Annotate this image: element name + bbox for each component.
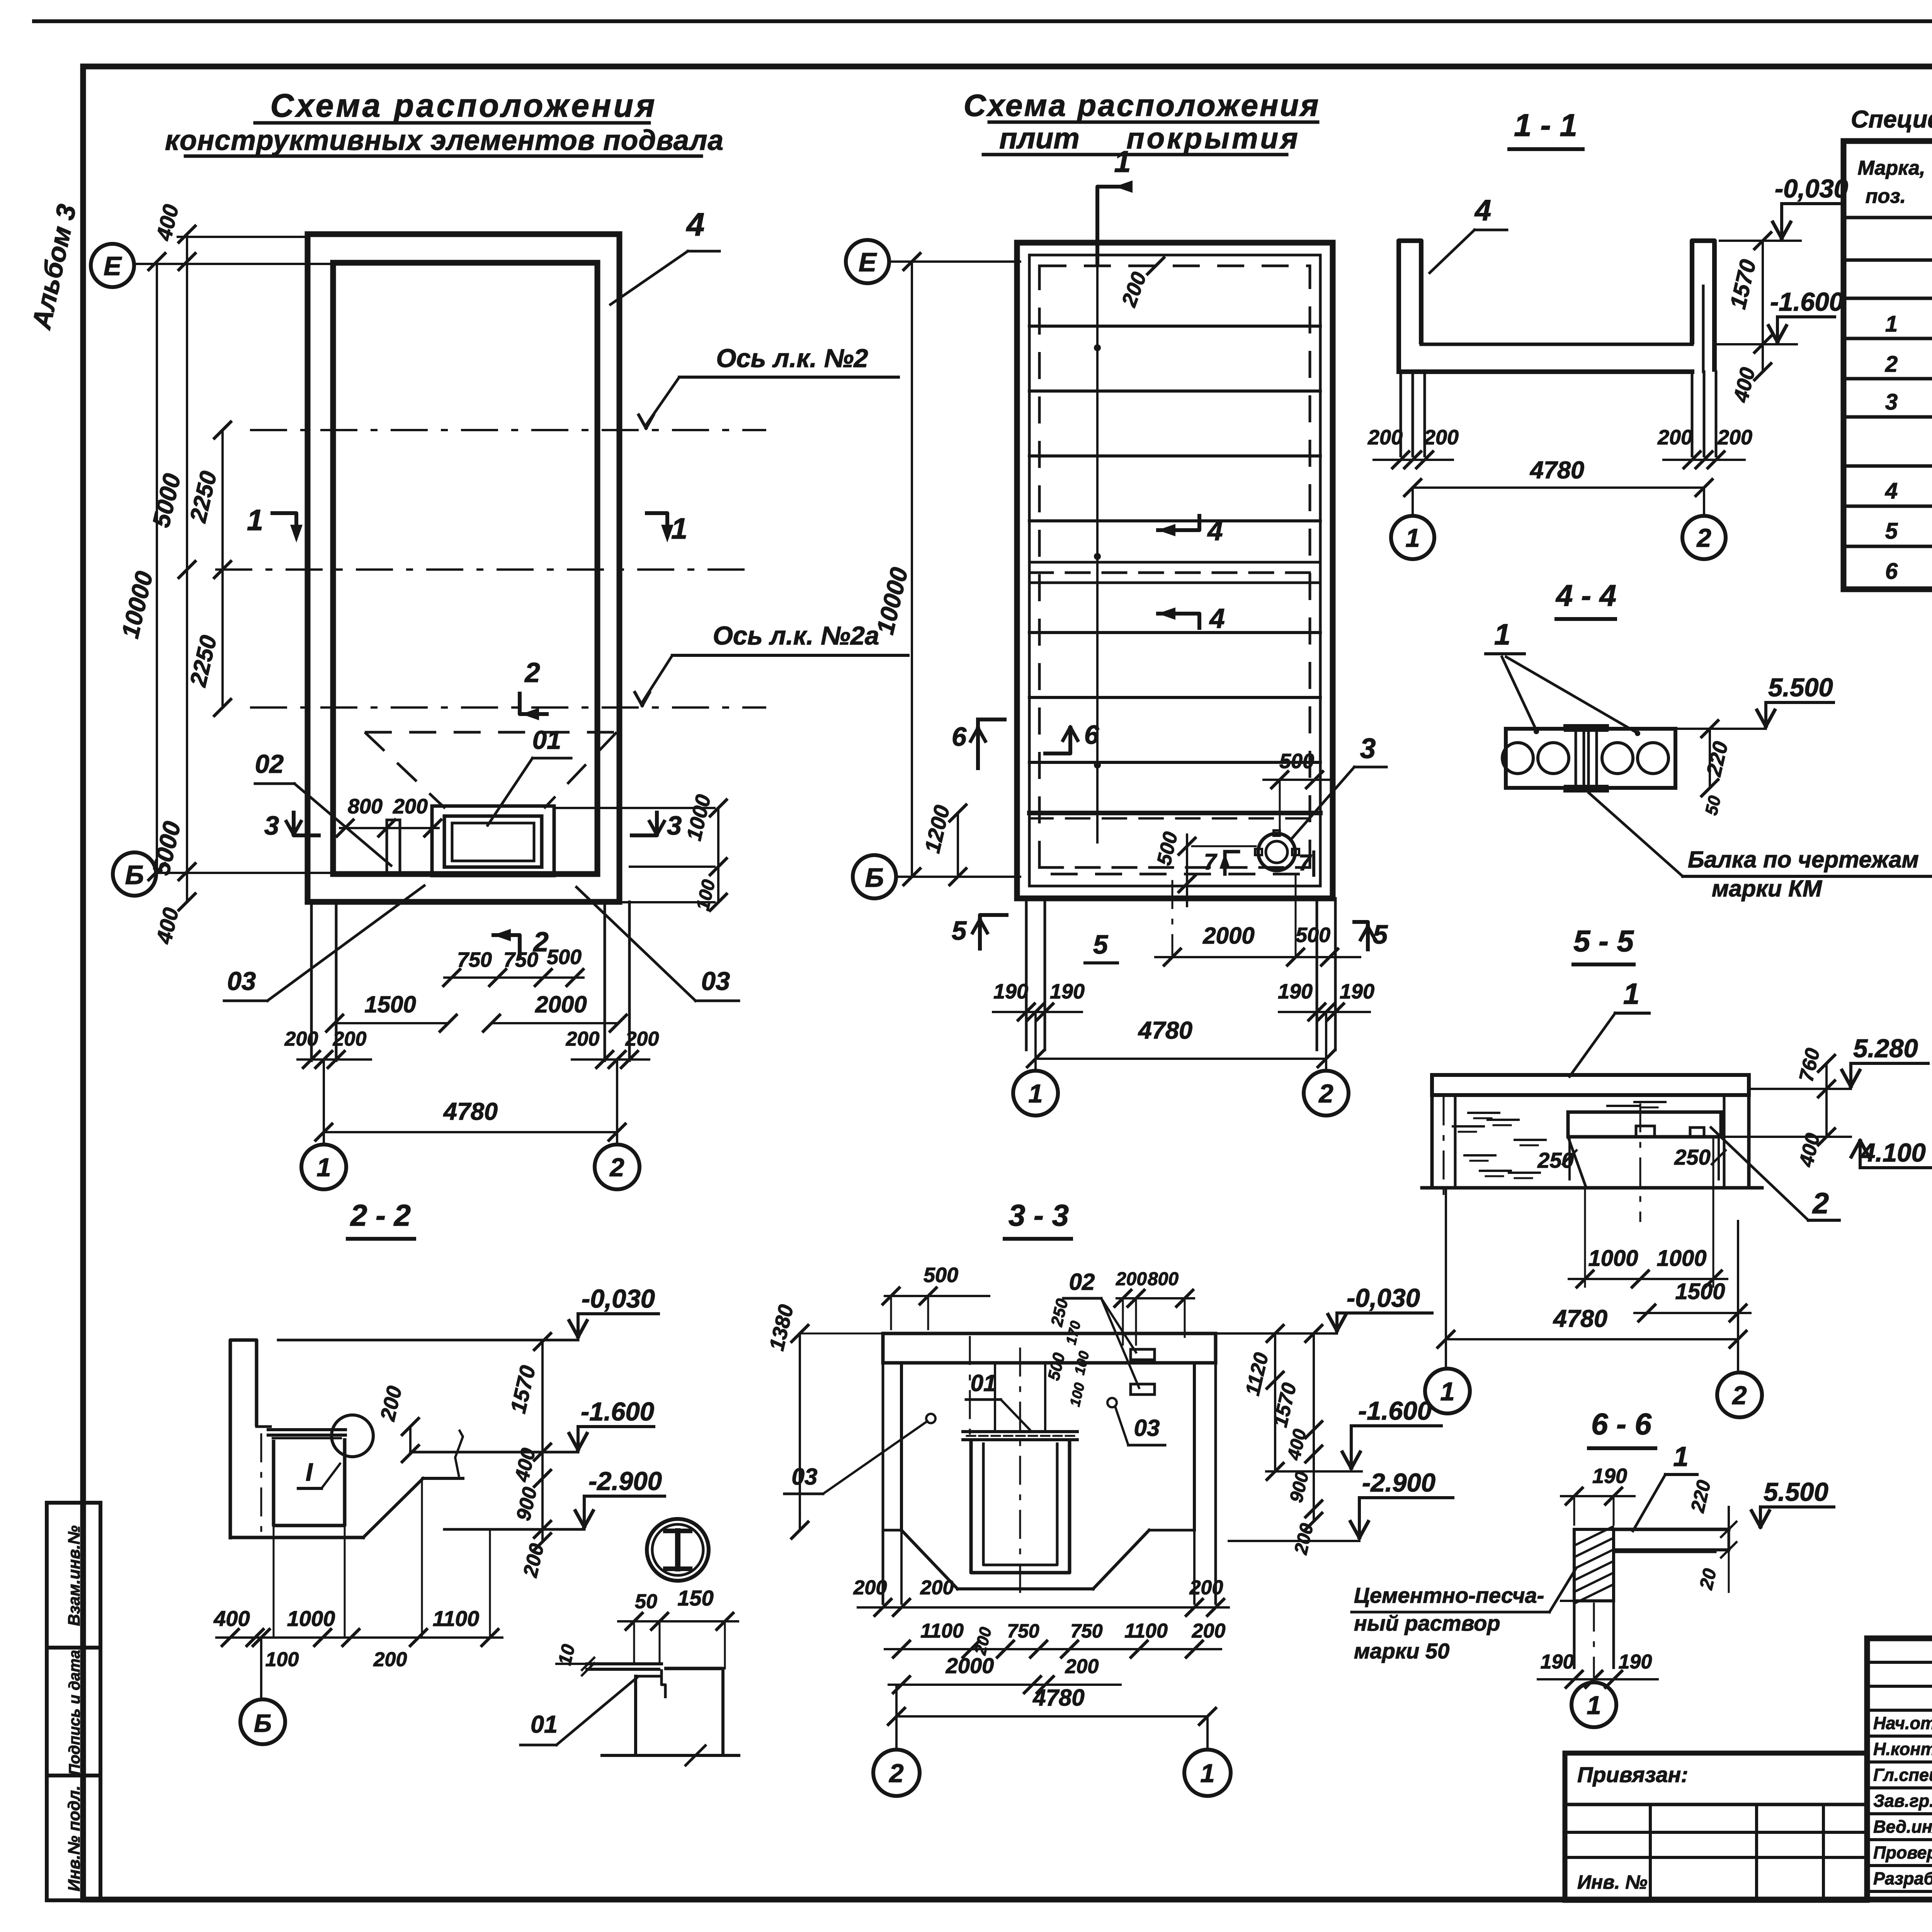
embedded MC parts (5-5)	[1636, 1126, 1655, 1137]
column axis 1 circle (roof plan)	[1034, 1012, 1037, 1070]
axis circle 2 (5-5)	[1737, 1221, 1739, 1372]
svg-text:Разраб.: Разраб.	[1873, 1869, 1932, 1888]
svg-text:1000: 1000	[1588, 1246, 1638, 1271]
svg-text:Провер: Провер	[1873, 1843, 1932, 1862]
bearing plate 01 (3-3)	[963, 1430, 1077, 1433]
svg-text:200: 200	[1189, 1577, 1223, 1599]
dims 200 200 left (1-1)	[1374, 459, 1453, 461]
svg-text:2 - 2: 2 - 2	[350, 1198, 411, 1232]
svg-text:4780: 4780	[1032, 1685, 1084, 1711]
svg-text:200: 200	[1367, 426, 1403, 449]
roof plan walls below (elevation)	[1025, 898, 1028, 1050]
svg-text:200: 200	[853, 1577, 887, 1599]
svg-text:2: 2	[524, 658, 540, 688]
svg-text:Взам.инв.№: Взам.инв.№	[65, 1526, 83, 1626]
svg-text:200: 200	[333, 1028, 367, 1050]
axis E circle (roof plan)	[846, 240, 889, 283]
outer sheet border top	[34, 19, 1932, 23]
dim 4780 (1-1)	[1413, 486, 1704, 489]
column axis 1 circle (left plan)	[323, 1060, 325, 1143]
dim 190 190 labels	[993, 1011, 1082, 1013]
hollow-core slab section (4-4)	[1506, 729, 1675, 788]
svg-text:200: 200	[1657, 426, 1692, 449]
right dim chains (3-3)	[1274, 1333, 1276, 1471]
column axis 2 circle (roof plan)	[1325, 1012, 1327, 1070]
dim 500 above funnel	[1264, 779, 1329, 781]
concrete texture dashes (5-5)	[1468, 1112, 1499, 1114]
bottom dim rows (3-3)	[858, 1606, 1229, 1609]
svg-text:-1.600: -1.600	[581, 1397, 654, 1426]
svg-text:190: 190	[1541, 1651, 1574, 1673]
svg-text:200: 200	[373, 1648, 407, 1671]
vertical dim 2250/2250	[221, 430, 224, 707]
svg-text:1500: 1500	[364, 992, 416, 1017]
axis line Б vertical (2-2)	[260, 1434, 262, 1542]
detail I: plate	[587, 1662, 662, 1665]
elevation -0.030 (3-3)	[1216, 1332, 1337, 1335]
svg-text:1: 1	[1028, 1079, 1043, 1108]
dim 400 (1-1)	[1762, 344, 1764, 372]
svg-text:6 - 6: 6 - 6	[1591, 1407, 1652, 1441]
centerline left wall (3-3)	[969, 1337, 971, 1437]
svg-text:190: 190	[1340, 980, 1374, 1003]
svg-text:4780: 4780	[1529, 457, 1584, 484]
svg-text:5: 5	[1885, 519, 1898, 544]
dim 2000/500 under plan	[1155, 956, 1360, 958]
svg-text:5.500: 5.500	[1764, 1478, 1828, 1507]
svg-text:1: 1	[1673, 1442, 1689, 1472]
svg-text:190: 190	[1050, 980, 1085, 1003]
wall outline (2-2)	[230, 1340, 257, 1539]
svg-text:4780: 4780	[1553, 1305, 1607, 1332]
svg-text:7: 7	[1299, 850, 1312, 875]
svg-text:200: 200	[1717, 426, 1752, 449]
svg-text:Цементно-песча-: Цементно-песча-	[1354, 1583, 1544, 1607]
dim 220 (4-4)	[1709, 729, 1711, 788]
svg-text:Гл.спец.: Гл.спец.	[1873, 1765, 1932, 1785]
section 1-1 cut line (vertical)	[1096, 187, 1099, 842]
svg-text:марки 50: марки 50	[1354, 1639, 1449, 1663]
svg-text:-1.600: -1.600	[1770, 287, 1844, 316]
slab (6-6)	[1614, 1528, 1729, 1531]
svg-text:Ось л.к. №2а: Ось л.к. №2а	[713, 621, 879, 650]
svg-text:7: 7	[1204, 849, 1218, 874]
svg-text:6: 6	[1885, 559, 1898, 584]
svg-text:Привязан:: Привязан:	[1577, 1762, 1688, 1787]
svg-text:1000: 1000	[287, 1606, 335, 1631]
svg-text:3: 3	[1360, 733, 1376, 764]
svg-text:4 - 4: 4 - 4	[1555, 578, 1616, 612]
svg-text:Б: Б	[125, 860, 144, 890]
svg-text:-2.900: -2.900	[588, 1467, 662, 1496]
dim 500 top (3-3)	[885, 1295, 989, 1297]
svg-text:500: 500	[1296, 923, 1330, 947]
svg-text:2: 2	[1696, 524, 1711, 553]
axis E line	[134, 263, 359, 265]
svg-text:Н.контр.: Н.контр.	[1873, 1739, 1932, 1759]
vertical dim 10000 (left)	[156, 262, 158, 872]
cup walls (3-3)	[971, 1440, 1070, 1573]
svg-text:конструктивных элементов под: конструктивных элементов подвала	[165, 125, 724, 156]
svg-text:750: 750	[1007, 1620, 1039, 1642]
specification table grid	[1844, 141, 1932, 589]
detail circle I (2-2)	[332, 1415, 373, 1457]
roof plan dashed wall face	[1039, 266, 1310, 874]
svg-text:200: 200	[920, 1577, 954, 1599]
dim 800/200 near pit	[340, 827, 439, 829]
svg-text:Нач.отв.: Нач.отв.	[1873, 1713, 1932, 1733]
privyazan box	[1565, 1753, 1867, 1900]
svg-text:4.100: 4.100	[1860, 1138, 1926, 1167]
right dim chain (2-2)	[541, 1342, 544, 1542]
svg-text:марки КМ: марки КМ	[1712, 876, 1823, 901]
svg-text:4: 4	[686, 206, 705, 243]
slab joint edges (4-4)	[1575, 729, 1577, 788]
dim 1500 (5-5)	[1634, 1312, 1750, 1314]
svg-text:Инв. №: Инв. №	[1577, 1871, 1647, 1893]
svg-text:-0,030: -0,030	[1775, 174, 1848, 203]
svg-text:190: 190	[1278, 980, 1313, 1003]
svg-text:200: 200	[393, 795, 428, 818]
svg-text:1: 1	[1587, 1691, 1601, 1720]
axis circle 1 (1-1)	[1412, 488, 1414, 515]
svg-text:4780: 4780	[443, 1098, 498, 1125]
svg-text:Марка,: Марка,	[1858, 157, 1925, 179]
svg-text:2: 2	[1885, 352, 1898, 377]
svg-text:Подпись и дата: Подпись и дата	[66, 1650, 83, 1775]
svg-text:01: 01	[531, 1711, 558, 1738]
section 1-1 right wall	[1692, 241, 1714, 372]
svg-text:03: 03	[1134, 1415, 1160, 1441]
svg-text:1: 1	[1623, 978, 1639, 1010]
axis circle 1 (5-5)	[1445, 1188, 1447, 1368]
axis Б circle (roof plan)	[853, 855, 896, 898]
svg-text:190: 190	[1592, 1464, 1627, 1488]
section mark 4 (upper)	[1156, 514, 1199, 530]
svg-text:100: 100	[265, 1648, 299, 1671]
svg-text:1 - 1: 1 - 1	[1514, 108, 1577, 143]
svg-text:50: 50	[635, 1590, 657, 1613]
dims 1000 1000 (5-5)	[1584, 1188, 1586, 1287]
svg-text:5 - 5: 5 - 5	[1573, 924, 1634, 958]
centerline pit (5-5)	[1639, 1104, 1641, 1221]
svg-text:200: 200	[284, 1028, 318, 1050]
bearing plate 01 (2-2)	[268, 1428, 345, 1431]
svg-text:4: 4	[1209, 604, 1225, 634]
lintel Пр1 (5-5)	[1568, 1112, 1721, 1137]
svg-text:поз.: поз.	[1866, 185, 1906, 207]
dim 4780 (roof plan)	[1036, 1058, 1326, 1060]
svg-text:4: 4	[1474, 194, 1491, 227]
svg-text:750: 750	[503, 948, 538, 971]
bottom dashed line	[1039, 866, 1310, 869]
svg-text:Вед.инж.: Вед.инж.	[1873, 1817, 1932, 1837]
svg-text:750: 750	[457, 948, 492, 971]
svg-text:-2.900: -2.900	[1362, 1468, 1435, 1497]
section mark 4 (lower)	[1156, 614, 1199, 630]
svg-text:2000: 2000	[1202, 923, 1254, 949]
dims 200 200 right (1-1)	[1663, 459, 1745, 461]
dim 220/20 right (6-6)	[1728, 1507, 1730, 1529]
svg-text:1: 1	[671, 512, 687, 545]
centerline left wall (5-5)	[1443, 1097, 1445, 1206]
svg-text:400: 400	[213, 1606, 250, 1631]
opening edges above cup (3-3)	[994, 1363, 996, 1432]
svg-text:5: 5	[952, 916, 967, 946]
margin box Подпись и дата	[47, 1648, 100, 1776]
svg-text:Е: Е	[104, 251, 122, 281]
embedded part 02 (plan)	[387, 820, 400, 875]
svg-text:5: 5	[1373, 920, 1388, 949]
svg-text:-1.600: -1.600	[1358, 1396, 1432, 1425]
svg-text:3 - 3: 3 - 3	[1009, 1198, 1069, 1232]
dim 4780 (left plan)	[324, 1131, 617, 1133]
basement plan outer wall	[308, 234, 619, 902]
svg-text:6: 6	[1084, 720, 1099, 750]
svg-text:500: 500	[923, 1264, 958, 1287]
svg-text:01: 01	[532, 726, 561, 755]
axis E circle (left plan)	[91, 244, 134, 287]
svg-text:Б: Б	[254, 1709, 272, 1737]
slab plate (5-5)	[1432, 1075, 1749, 1095]
dim 4780 (5-5)	[1446, 1338, 1738, 1340]
leader 03 left (3-3)	[926, 1414, 935, 1423]
level line -0.030 (2-2)	[278, 1339, 578, 1342]
svg-text:500: 500	[1279, 750, 1314, 773]
margin box Инв.№ подл.	[47, 1776, 100, 1900]
svg-text:6: 6	[952, 722, 967, 752]
svg-text:4780: 4780	[1138, 1017, 1192, 1044]
walls below slab (3-3)	[900, 1363, 903, 1530]
level line -1.600 (2-2)	[410, 1451, 578, 1454]
dim 1570 (1-1)	[1762, 241, 1764, 344]
centerline pit (3-3)	[1019, 1349, 1021, 1600]
svg-text:03: 03	[792, 1464, 818, 1490]
dim 1380 left (3-3)	[799, 1333, 801, 1530]
axis circle 1 (6-6)	[1593, 1604, 1595, 1679]
svg-text:03: 03	[227, 967, 256, 996]
svg-text:1: 1	[1885, 311, 1898, 337]
elevation -1.600 (3-3)	[1266, 1470, 1362, 1473]
svg-text:4: 4	[1207, 516, 1223, 546]
slab ПМ4 top edge	[1029, 811, 1320, 815]
pit slopes and floor (3-3)	[883, 1529, 901, 1532]
top slab band (3-3)	[883, 1333, 1216, 1363]
column axis 2 circle (left plan)	[616, 1060, 618, 1143]
svg-text:200: 200	[1423, 426, 1459, 449]
svg-text:ный раствор: ный раствор	[1354, 1611, 1500, 1635]
title block: signature table	[1867, 1638, 1932, 1900]
slab joint lines	[1029, 325, 1320, 328]
section 1-1 left wall	[1399, 241, 1421, 372]
svg-text:2: 2	[1318, 1079, 1333, 1108]
detail I: dim 50/150	[618, 1620, 738, 1622]
svg-text:-0,030: -0,030	[582, 1284, 655, 1313]
svg-text:3: 3	[1885, 389, 1898, 415]
svg-text:Схема расположения: Схема расположения	[270, 87, 657, 124]
svg-text:Б: Б	[865, 863, 884, 893]
extension line top-left	[178, 236, 309, 238]
dim 4780 (3-3)	[896, 1715, 1207, 1718]
drain funnel (стакан) in roof plan	[1258, 833, 1295, 871]
svg-text:190: 190	[993, 980, 1028, 1003]
wall hatched (6-6)	[1574, 1529, 1614, 1601]
detail I: ground line	[602, 1754, 739, 1757]
svg-text:800: 800	[348, 795, 383, 818]
monolithic strip over lintel	[1029, 561, 1320, 564]
svg-text:01: 01	[971, 1370, 997, 1396]
vertical dim chain 400/5000/5000/400	[186, 234, 188, 902]
svg-text:750: 750	[1070, 1620, 1103, 1642]
svg-text:1: 1	[316, 1153, 331, 1182]
axis Б line	[156, 872, 371, 874]
basement plan inner wall	[333, 263, 597, 874]
svg-text:2: 2	[1812, 1187, 1829, 1220]
svg-text:1100: 1100	[433, 1606, 479, 1631]
pit floor (2-2)	[230, 1536, 363, 1539]
svg-text:1: 1	[1114, 145, 1131, 179]
svg-text:1: 1	[1200, 1759, 1214, 1788]
svg-text:Е: Е	[859, 247, 877, 277]
svg-text:4: 4	[1885, 478, 1898, 503]
axis circle 1 (3-3)	[1206, 1716, 1209, 1750]
mid axis dash-dot line	[216, 568, 757, 571]
dim 1500 / 2000 row	[335, 1022, 448, 1024]
dim 190 top (6-6)	[1561, 1495, 1634, 1497]
steel I-beam (4-4)	[1565, 724, 1607, 727]
detail circle mark I	[647, 1519, 709, 1581]
stair axis line Ось л.к. №2	[251, 429, 765, 431]
svg-text:Зав.гр.: Зав.гр.	[1873, 1791, 1932, 1811]
svg-text:200: 200	[1116, 1269, 1147, 1289]
svg-text:1: 1	[1494, 618, 1510, 651]
basement walls below plan (elevation)	[310, 902, 313, 1061]
svg-text:5: 5	[1093, 930, 1109, 959]
svg-text:500: 500	[547, 946, 582, 969]
wall below (6-6)	[1573, 1601, 1576, 1668]
cup walls (2-2)	[274, 1438, 345, 1526]
pit dashed opening (plan)	[365, 731, 617, 734]
svg-text:2: 2	[1731, 1381, 1747, 1410]
dim 1200	[957, 813, 959, 877]
svg-text:Спецификация к схеме распол: Спецификация к схеме расположения констр…	[1851, 106, 1932, 133]
svg-text:200: 200	[1192, 1620, 1226, 1642]
svg-text:250: 250	[1674, 1145, 1710, 1169]
axis circle Б (2-2)	[260, 1638, 262, 1699]
svg-text:200: 200	[625, 1028, 659, 1050]
svg-text:1: 1	[1440, 1377, 1454, 1406]
bottom dim chain (2-2)	[273, 1526, 275, 1638]
pit walls (plan)	[432, 806, 554, 876]
svg-text:плит: плит	[999, 122, 1080, 155]
dim 200 200 / 200 200 row	[298, 1058, 371, 1061]
svg-text:2: 2	[609, 1153, 624, 1182]
stair axis line Ось л.к. №2а	[251, 706, 765, 709]
svg-text:Схема расположения: Схема расположения	[964, 88, 1320, 122]
svg-text:3: 3	[264, 811, 279, 840]
svg-text:2000: 2000	[535, 992, 587, 1017]
svg-text:1: 1	[247, 504, 263, 537]
roof plan inner line	[1029, 255, 1320, 886]
embedded parts 02 (3-3)	[1131, 1349, 1155, 1360]
level line -2.900 (2-2)	[444, 1528, 584, 1531]
axis circle 2 (1-1)	[1703, 488, 1705, 515]
svg-text:5.280: 5.280	[1853, 1034, 1918, 1063]
svg-text:2000: 2000	[946, 1653, 994, 1678]
dims 200 800 top (3-3)	[1117, 1297, 1194, 1299]
svg-text:1000: 1000	[1656, 1246, 1706, 1271]
break mark (2-2)	[455, 1430, 463, 1477]
svg-text:02: 02	[1069, 1269, 1095, 1295]
svg-text:1: 1	[1405, 524, 1420, 553]
dim 750/750/500 row	[444, 976, 583, 979]
vertical dim 10000 (roof plan)	[911, 262, 913, 877]
svg-text:800: 800	[1148, 1269, 1179, 1289]
svg-text:02: 02	[255, 750, 284, 779]
svg-text:150: 150	[677, 1586, 713, 1610]
svg-text:I: I	[306, 1458, 313, 1486]
svg-text:покрытия: покрытия	[1126, 122, 1300, 155]
leader 03 right (3-3)	[1107, 1398, 1117, 1407]
axis circle 2 (3-3)	[895, 1685, 898, 1750]
svg-text:Ось л.к. №2: Ось л.к. №2	[716, 344, 868, 373]
svg-text:Инв.№ подл.: Инв.№ подл.	[65, 1786, 83, 1891]
ledge and cup (2-2)	[257, 1425, 270, 1428]
svg-text:1500: 1500	[1675, 1279, 1725, 1304]
svg-text:190: 190	[1619, 1651, 1652, 1673]
svg-text:03: 03	[701, 967, 730, 996]
svg-text:2: 2	[888, 1759, 903, 1788]
body walls (5-5)	[1430, 1095, 1434, 1188]
svg-text:5.500: 5.500	[1768, 673, 1833, 702]
svg-text:Балка по чертежам: Балка по чертежам	[1688, 847, 1919, 872]
section 1-1 floor slab	[1421, 343, 1692, 346]
roof plan outer wall	[1017, 243, 1333, 898]
dim 190 190 bottom (6-6)	[1538, 1678, 1658, 1680]
dim 1000/100 right of pit	[717, 808, 719, 902]
svg-text:200: 200	[566, 1028, 600, 1050]
axis Б circle (left plan)	[113, 852, 156, 896]
svg-text:-0,030: -0,030	[1347, 1284, 1420, 1313]
margin box Взам.инв.№	[47, 1503, 100, 1648]
section 1-1 walls below (break)	[1400, 372, 1402, 456]
elevation -2.900 (3-3)	[1229, 1540, 1359, 1542]
svg-text:200: 200	[1065, 1655, 1099, 1678]
detail I: wall block	[636, 1669, 662, 1676]
svg-text:3: 3	[667, 811, 682, 840]
svg-text:1100: 1100	[920, 1620, 964, 1642]
svg-text:1100: 1100	[1124, 1620, 1168, 1642]
